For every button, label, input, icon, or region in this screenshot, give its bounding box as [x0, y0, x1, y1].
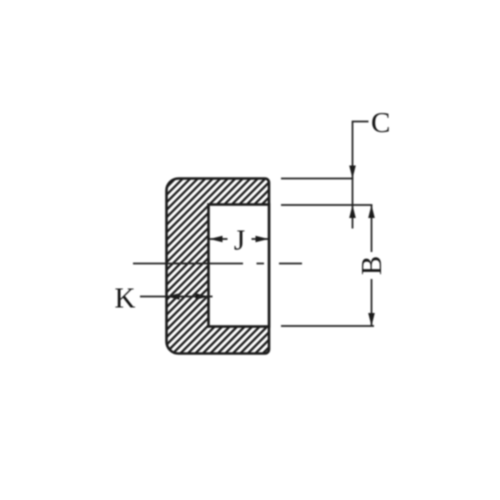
- extension line socket bottom: [281, 325, 374, 327]
- svg-text:J: J: [234, 225, 245, 257]
- svg-text:B: B: [356, 256, 388, 275]
- extension line top (body top): [281, 178, 353, 180]
- centerline: [133, 263, 302, 265]
- dimension J lines: [210, 238, 269, 240]
- arrow C down: [349, 166, 356, 179]
- arrow K left: [167, 293, 180, 300]
- dimension C leader: [353, 122, 369, 229]
- arrow J left: [210, 236, 223, 243]
- extension line socket top: [281, 204, 372, 206]
- arrow B down: [368, 313, 375, 326]
- arrow B up: [368, 205, 375, 218]
- socket bore (inner rectangle): [209, 205, 270, 327]
- arrow K right: [196, 293, 209, 300]
- svg-text:K: K: [115, 283, 136, 315]
- dimension B line: [371, 205, 373, 326]
- arrow C up: [349, 205, 356, 218]
- cap body cross-section (hatched): [167, 179, 270, 354]
- arrow J right: [256, 236, 269, 243]
- svg-text:C: C: [371, 107, 390, 139]
- dimension K leader: [140, 296, 213, 298]
